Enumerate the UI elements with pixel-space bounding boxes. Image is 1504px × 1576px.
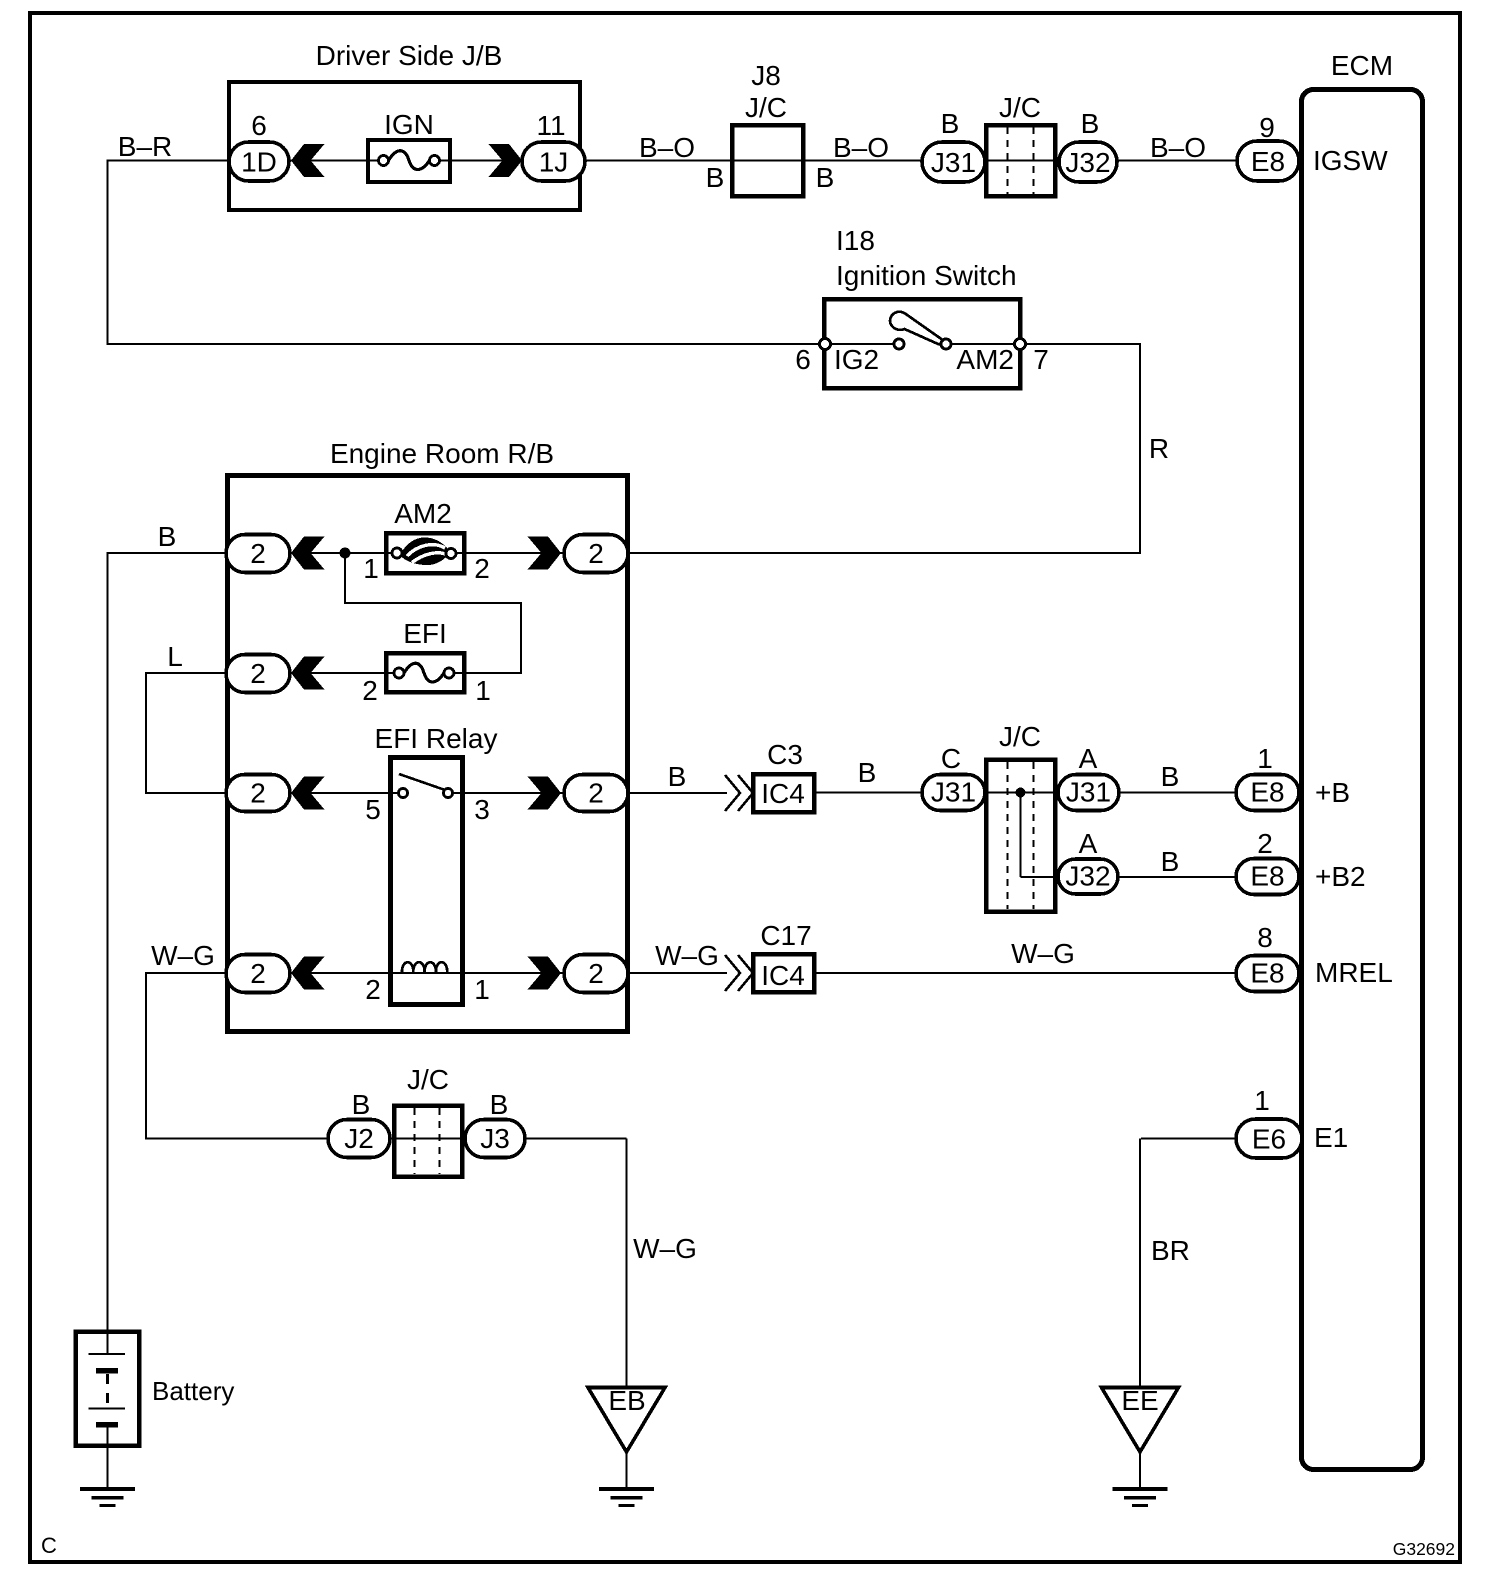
svg-text:1D: 1D <box>241 146 277 177</box>
svg-text:J/C: J/C <box>999 92 1041 123</box>
svg-text:G32692: G32692 <box>1393 1539 1455 1559</box>
svg-text:B: B <box>706 162 725 193</box>
svg-text:2: 2 <box>362 675 378 706</box>
svg-text:2: 2 <box>250 958 266 989</box>
svg-text:B–O: B–O <box>833 132 889 163</box>
svg-text:AM2: AM2 <box>394 498 452 529</box>
svg-text:B: B <box>158 521 177 552</box>
svg-text:E8: E8 <box>1250 777 1284 808</box>
svg-text:J3: J3 <box>480 1123 510 1154</box>
svg-text:A: A <box>1079 828 1098 859</box>
svg-text:B: B <box>858 757 877 788</box>
svg-text:MREL: MREL <box>1315 957 1393 988</box>
svg-text:Ignition Switch: Ignition Switch <box>836 260 1017 291</box>
svg-text:J/C: J/C <box>999 721 1041 752</box>
svg-text:11: 11 <box>536 110 565 141</box>
svg-text:J/C: J/C <box>407 1064 449 1095</box>
svg-text:ECM: ECM <box>1331 50 1393 81</box>
svg-text:E8: E8 <box>1251 146 1285 177</box>
svg-text:J32: J32 <box>1065 147 1110 178</box>
svg-text:B: B <box>352 1089 371 1120</box>
svg-text:B: B <box>1161 846 1180 877</box>
svg-text:3: 3 <box>474 794 490 825</box>
svg-text:J8: J8 <box>751 60 781 91</box>
svg-text:C3: C3 <box>767 739 803 770</box>
svg-text:B: B <box>1161 761 1180 792</box>
svg-text:J31: J31 <box>931 777 976 808</box>
svg-text:C: C <box>941 743 961 774</box>
svg-text:BR: BR <box>1151 1235 1190 1266</box>
svg-text:C17: C17 <box>760 920 811 951</box>
svg-text:J/C: J/C <box>745 92 787 123</box>
svg-text:2: 2 <box>588 777 604 808</box>
svg-text:1: 1 <box>1257 743 1273 774</box>
svg-text:2: 2 <box>250 538 266 569</box>
svg-text:6: 6 <box>795 344 811 375</box>
svg-text:IC4: IC4 <box>761 778 805 809</box>
svg-text:I18: I18 <box>836 225 875 256</box>
svg-text:J31: J31 <box>1066 777 1111 808</box>
svg-text:B: B <box>941 108 960 139</box>
svg-text:B–O: B–O <box>1150 132 1206 163</box>
svg-text:W–G: W–G <box>151 940 215 971</box>
svg-text:IGSW: IGSW <box>1313 145 1388 176</box>
svg-text:W–G: W–G <box>1011 938 1075 969</box>
svg-text:B–R: B–R <box>118 131 172 162</box>
svg-text:+B: +B <box>1315 777 1350 808</box>
svg-text:B: B <box>668 761 687 792</box>
svg-text:2: 2 <box>365 974 381 1005</box>
svg-text:2: 2 <box>250 777 266 808</box>
svg-text:2: 2 <box>1257 828 1273 859</box>
svg-text:IGN: IGN <box>384 109 434 140</box>
svg-text:E6: E6 <box>1252 1123 1286 1154</box>
svg-text:A: A <box>1079 743 1098 774</box>
svg-text:IG2: IG2 <box>834 344 879 375</box>
svg-text:B–O: B–O <box>639 132 695 163</box>
svg-text:1: 1 <box>475 675 491 706</box>
svg-text:W–G: W–G <box>633 1233 697 1264</box>
svg-text:B: B <box>1081 108 1100 139</box>
svg-text:1: 1 <box>1254 1085 1270 1116</box>
svg-text:J2: J2 <box>344 1123 374 1154</box>
svg-text:L: L <box>167 641 183 672</box>
svg-text:Engine Room R/B: Engine Room R/B <box>330 438 554 469</box>
svg-text:Battery: Battery <box>152 1376 234 1406</box>
svg-text:IC4: IC4 <box>761 960 805 991</box>
svg-text:E8: E8 <box>1250 958 1284 989</box>
svg-text:W–G: W–G <box>655 940 719 971</box>
svg-text:1: 1 <box>474 974 490 1005</box>
svg-text:R: R <box>1149 433 1169 464</box>
svg-text:AM2: AM2 <box>956 344 1014 375</box>
svg-text:B: B <box>816 162 835 193</box>
svg-text:E8: E8 <box>1250 861 1284 892</box>
svg-text:J32: J32 <box>1065 860 1110 891</box>
svg-text:2: 2 <box>588 538 604 569</box>
svg-text:EFI Relay: EFI Relay <box>375 723 498 754</box>
svg-text:EE: EE <box>1121 1385 1158 1416</box>
svg-text:1: 1 <box>363 553 379 584</box>
svg-text:Driver Side J/B: Driver Side J/B <box>316 40 503 71</box>
svg-text:C: C <box>41 1533 57 1558</box>
svg-text:+B2: +B2 <box>1315 861 1366 892</box>
svg-text:2: 2 <box>250 658 266 689</box>
svg-text:EFI: EFI <box>403 618 447 649</box>
svg-text:5: 5 <box>365 794 381 825</box>
svg-text:1J: 1J <box>539 146 569 177</box>
svg-text:9: 9 <box>1259 112 1275 143</box>
svg-text:2: 2 <box>588 958 604 989</box>
svg-text:7: 7 <box>1033 344 1049 375</box>
svg-text:6: 6 <box>251 110 267 141</box>
svg-text:E1: E1 <box>1314 1122 1348 1153</box>
svg-text:J31: J31 <box>931 147 976 178</box>
svg-text:EB: EB <box>608 1385 645 1416</box>
svg-text:B: B <box>490 1089 509 1120</box>
svg-text:2: 2 <box>474 553 490 584</box>
svg-text:8: 8 <box>1257 922 1273 953</box>
